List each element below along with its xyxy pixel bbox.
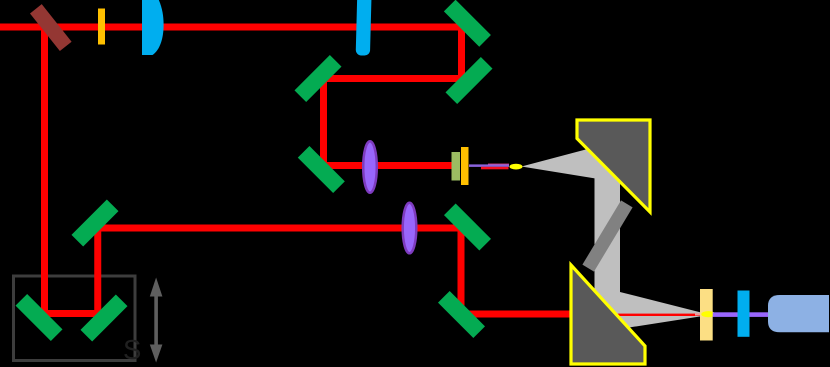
svg-text:S: S (123, 334, 141, 365)
